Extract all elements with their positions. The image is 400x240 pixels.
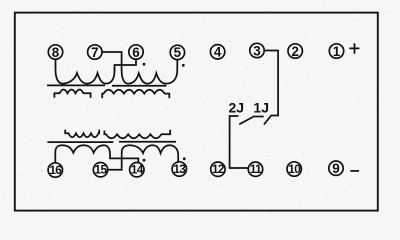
svg-text:10: 10: [288, 162, 301, 176]
svg-text:1: 1: [333, 44, 341, 59]
svg-text:8: 8: [52, 45, 60, 60]
svg-text:2J: 2J: [229, 100, 245, 116]
svg-text:15: 15: [95, 163, 108, 177]
svg-text:9: 9: [332, 161, 339, 176]
svg-text:13: 13: [173, 162, 186, 176]
svg-text:6: 6: [132, 45, 139, 60]
svg-text:14: 14: [131, 163, 144, 177]
svg-text:3: 3: [253, 43, 260, 58]
svg-text:12: 12: [212, 162, 225, 176]
svg-text:11: 11: [250, 162, 262, 176]
svg-text:5: 5: [174, 45, 182, 60]
svg-text:2: 2: [291, 44, 298, 59]
svg-text:16: 16: [49, 163, 62, 177]
svg-text:1J: 1J: [253, 100, 269, 116]
svg-text:4: 4: [214, 45, 222, 60]
svg-text:7: 7: [91, 45, 98, 60]
